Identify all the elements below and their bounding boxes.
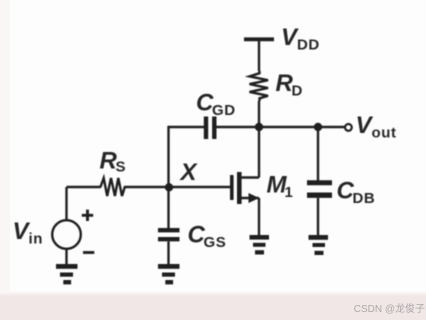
svg-text:DD: DD <box>297 37 320 54</box>
svg-text:X: X <box>179 159 199 186</box>
svg-text:out: out <box>372 125 397 142</box>
svg-text:GD: GD <box>212 102 236 119</box>
svg-text:1: 1 <box>285 184 294 201</box>
svg-text:S: S <box>116 159 127 176</box>
svg-text:in: in <box>29 231 44 248</box>
svg-text:D: D <box>292 83 303 100</box>
svg-text:GS: GS <box>204 234 227 251</box>
svg-text:DB: DB <box>353 190 376 207</box>
